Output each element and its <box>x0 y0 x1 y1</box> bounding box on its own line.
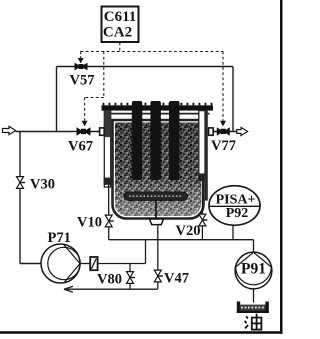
pump P91 <box>235 252 272 289</box>
bottom drain header wire with arrow <box>64 286 158 292</box>
valve V77 <box>217 127 230 136</box>
svg-text:P91: P91 <box>241 261 266 278</box>
filter cartridge 3 <box>169 101 180 180</box>
svg-text:P71: P71 <box>48 230 71 246</box>
heater element inside vessel <box>124 192 188 200</box>
filter vessel body (stippled) <box>113 120 204 219</box>
vessel inner rim line <box>106 113 210 115</box>
drain branch wire through V47 <box>157 225 159 289</box>
instrument P92 connection wire <box>232 225 234 239</box>
svg-text:CA2: CA2 <box>103 25 132 41</box>
pump discharge wire <box>80 263 90 265</box>
vessel right wall <box>205 111 208 201</box>
P91 suction wire to oil reservoir <box>253 289 255 303</box>
valve V80 <box>127 272 136 284</box>
pump P71 <box>41 244 80 283</box>
control line to valve V77 <box>222 52 224 121</box>
right sleeve tube <box>198 111 205 181</box>
svg-text:V77: V77 <box>211 138 236 154</box>
left sleeve tube <box>104 111 112 187</box>
oil reservoir <box>237 302 269 314</box>
valve V20 <box>199 214 208 226</box>
svg-text:V47: V47 <box>164 271 189 287</box>
svg-text:V10: V10 <box>77 215 102 231</box>
control signal header line (dashed horizontal) <box>81 51 224 53</box>
inlet arrow <box>3 126 16 134</box>
discharge wire to riser <box>98 240 146 264</box>
drain nozzle <box>150 219 164 225</box>
filter cartridge 1 <box>132 101 143 180</box>
controller box C611/CA2 <box>102 7 139 43</box>
vessel lid bar <box>102 105 214 110</box>
oil label 油 (drawn) <box>245 314 262 330</box>
page border right <box>280 0 283 334</box>
check valve box <box>90 257 97 270</box>
outlet arrow <box>237 127 248 135</box>
svg-text:V20: V20 <box>176 223 201 239</box>
branch pipe wire to V30 and pump P71 <box>20 132 42 264</box>
svg-text:V80: V80 <box>97 272 122 288</box>
drain stem wire from heater <box>155 200 157 218</box>
svg-text:V67: V67 <box>68 139 93 155</box>
V20 branch wire <box>201 181 203 240</box>
svg-text:P92: P92 <box>226 206 249 221</box>
V80 branch wire <box>129 264 131 290</box>
instrument bubble PISA+/P92 <box>209 186 260 226</box>
bypass pipe wire (up-over-down) <box>57 67 234 132</box>
inlet pipe wire <box>16 131 100 133</box>
V10 branch wire <box>108 185 110 240</box>
manifold wire to P91 <box>109 240 254 253</box>
svg-text:C611: C611 <box>104 9 137 25</box>
valve V57 <box>75 63 88 71</box>
valve V10 <box>105 215 114 227</box>
valve V30 <box>17 177 26 189</box>
valve V67 <box>77 127 91 136</box>
svg-text:V30: V30 <box>30 177 55 193</box>
outlet pipe wire to V77 and exit <box>205 131 237 133</box>
filter cartridge 2 <box>150 101 161 180</box>
control line to valve V57 <box>80 52 82 59</box>
control line to valve V67 <box>85 52 104 121</box>
valve V47 <box>154 270 163 282</box>
control signal line (dashed) from C611 box down <box>119 43 121 52</box>
lid bolt ticks <box>103 103 213 106</box>
svg-text:V57: V57 <box>70 73 95 89</box>
flange left <box>97 128 104 135</box>
flange right <box>209 128 217 135</box>
page border bottom <box>0 331 283 334</box>
